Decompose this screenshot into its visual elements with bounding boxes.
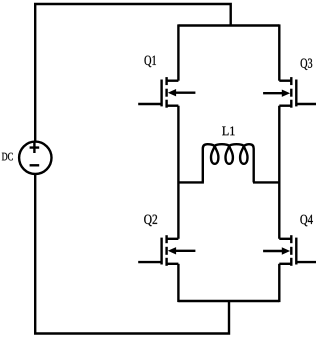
DC source plus sign	[30, 142, 40, 153]
Q1 channel drain segment	[165, 77, 167, 85]
Q4 body lead line	[263, 250, 283, 252]
Q4 source lead	[279, 263, 292, 265]
wire: right node vertical Q4 source to bottom rail	[278, 264, 280, 302]
Q3 body arrow head	[282, 90, 290, 97]
Q3 source lead	[279, 104, 292, 106]
transistor Q2	[138, 235, 195, 266]
Q1 channel source segment	[165, 100, 167, 108]
Q1 body arrow head	[168, 89, 176, 96]
Q2 drain lead	[166, 238, 179, 240]
transistor Q1	[138, 77, 195, 108]
inductor L1 label	[222, 126, 234, 135]
wire: left wire below DC source, bottom wire, bottom riser	[35, 175, 229, 334]
wire: top rail of H-bridge	[178, 24, 279, 26]
Q3 gate lead	[296, 103, 316, 105]
transistor Q4	[263, 235, 316, 266]
Q2 gate lead	[138, 261, 161, 263]
Q4 channel drain segment	[290, 235, 292, 243]
label Q4	[300, 215, 312, 227]
Q2 channel source segment	[165, 258, 167, 266]
Q2 channel body segment	[165, 247, 167, 255]
inductor L1 coil	[203, 144, 254, 182]
Q3 channel body segment	[290, 89, 292, 97]
Q1 gate bar	[160, 80, 162, 107]
Q4 gate bar	[295, 238, 297, 265]
DC source minus sign	[30, 164, 40, 166]
transistor Q3	[263, 77, 316, 108]
Q3 channel source segment	[290, 100, 292, 108]
Q4 gate lead	[296, 261, 316, 263]
Q2 body arrow head	[168, 247, 176, 254]
label Q2	[144, 215, 157, 227]
wire: right node vertical Q3 drain	[278, 24, 280, 80]
Q2 gate bar	[160, 238, 162, 265]
Q3 body lead line	[263, 92, 283, 94]
label Q3	[301, 59, 313, 70]
Q2 source lead	[166, 263, 179, 265]
Q1 channel body segment	[165, 89, 167, 97]
Q4 drain lead	[279, 238, 292, 240]
wire: right node vertical Q3 source to Q4 drain	[278, 106, 280, 239]
Q3 drain lead	[279, 79, 292, 81]
Q1 body lead line	[175, 91, 196, 93]
wire: left node vertical Q2 source to bottom rail	[177, 264, 179, 302]
Q1 source lead	[166, 104, 179, 106]
wire: bottom rail of H-bridge	[178, 300, 279, 302]
DC source V1 circle	[19, 142, 51, 174]
Q1 gate lead	[138, 103, 161, 105]
Q3 gate bar	[295, 80, 297, 107]
Q2 channel drain segment	[165, 235, 167, 243]
Q1 drain lead	[166, 79, 179, 81]
label Q1	[145, 56, 157, 68]
Q4 channel source segment	[290, 258, 292, 266]
wire: right connector to inductor	[253, 181, 279, 183]
wire: left node vertical Q1 drain	[177, 24, 179, 80]
Q2 body lead line	[175, 250, 196, 252]
Q3 channel drain segment	[290, 77, 292, 85]
wire: left connector to inductor	[178, 181, 204, 183]
wire: left node vertical Q1 source to Q2 drain	[177, 106, 179, 239]
Q4 channel body segment	[290, 247, 292, 255]
wire: top wire from left rail to top junction	[35, 4, 231, 141]
DC source label	[2, 153, 13, 161]
Q4 body arrow head	[282, 247, 290, 254]
